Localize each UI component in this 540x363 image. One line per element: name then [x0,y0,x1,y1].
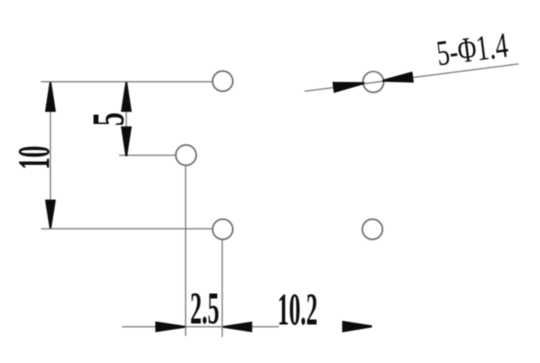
hole circle 5 [362,219,382,239]
arrowhead dim5 top (up) [121,82,132,112]
svg-text:5: 5 [84,112,134,126]
svg-text:2.5: 2.5 [190,283,219,333]
arrowhead leader left (points right into hole 4) [332,82,364,93]
wire: dimension line 10 vertical x=50.4 [49,82,51,229]
wire: top extension line y=81.7 [41,81,213,83]
arrowhead dim2.5 left (points right) [155,321,185,332]
hole circle 4 (with leader line crossing) [363,72,384,93]
wire: bottom dimension line y=326.8 [122,326,279,328]
arrowhead dim5 bottom (down) [121,126,132,156]
wire: bottom extension line y=228.8 [41,228,213,230]
wire: middle extension line y=155.3 [119,154,176,156]
wire: dimension line 5 vertical x=126.3 [125,82,127,157]
svg-text:10.2: 10.2 [278,284,318,335]
arrowhead dim10 bottom (down) [45,200,56,229]
arrowhead dim10.2 right (points right, isolated) [342,321,372,333]
wire: extension line below hole 3 x=222.2 [221,239,223,337]
arrowhead dim2.5 right (points left) [223,322,252,333]
wire: extension line below hole 2 x=185.6 [185,166,187,337]
hole circle 3 [213,219,233,239]
hole circle 1 [213,71,233,91]
svg-text:10: 10 [7,146,58,170]
arrowhead dim10 top (up) [45,82,56,112]
hole circle 2 [176,145,196,165]
wire: leader line through hole 4 [305,64,519,91]
arrowhead leader right (points left into hole 4) [382,72,413,83]
